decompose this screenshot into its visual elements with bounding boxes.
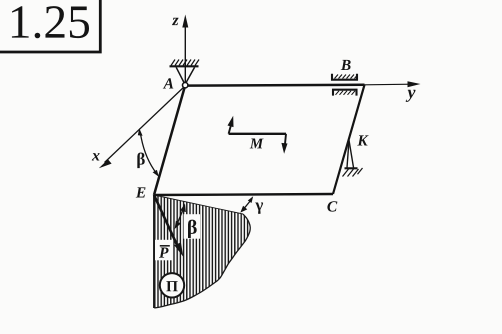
svg-text:C: C [327,198,338,215]
svg-text:M: M [249,136,264,152]
svg-text:K: K [356,132,369,149]
svg-text:P: P [159,245,169,262]
svg-text:Π: Π [166,278,178,295]
svg-text:B: B [340,57,351,74]
svg-text:1.25: 1.25 [8,0,91,49]
svg-text:β: β [187,217,198,239]
svg-text:E: E [135,184,146,201]
svg-text:x: x [91,147,100,164]
svg-text:A: A [163,75,174,92]
svg-text:y: y [405,82,416,102]
svg-text:β: β [136,149,145,168]
svg-text:γ: γ [254,195,263,214]
svg-text:z: z [171,12,179,29]
